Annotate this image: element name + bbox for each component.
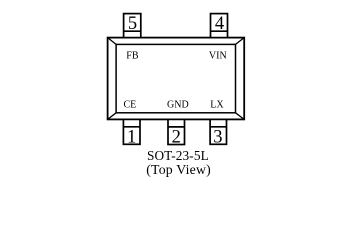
pin 3 number label: [213, 128, 222, 148]
bevel edge top-right: [236, 38, 245, 45]
bevel edge top-left: [108, 38, 117, 45]
bevel edge bottom-right: [236, 113, 245, 120]
pin 1 lead and number box: [123, 119, 140, 144]
svg-text:FB: FB: [126, 50, 139, 61]
svg-text:4: 4: [215, 14, 224, 34]
pin label VIN: [209, 50, 227, 61]
pin 1 number label: [127, 128, 136, 148]
pin 4 lead and number box: [211, 14, 228, 38]
pin 2 number label: [172, 128, 181, 148]
svg-text:CE: CE: [124, 100, 137, 111]
pin label CE: [124, 100, 137, 111]
pin 3 lead and number box: [210, 119, 226, 144]
caption SOT-23-5L: [147, 148, 209, 163]
pin 4 number label: [215, 14, 224, 34]
pin label FB: [126, 50, 139, 61]
svg-text:1: 1: [127, 128, 136, 148]
svg-text:GND: GND: [167, 100, 189, 111]
pin 5 lead and number box: [124, 14, 141, 38]
svg-text:LX: LX: [210, 100, 224, 111]
svg-text:2: 2: [172, 128, 181, 148]
svg-text:5: 5: [128, 14, 137, 34]
pin 5 number label: [128, 14, 137, 34]
pin label GND: [167, 100, 189, 111]
pin 2 lead and number box: [168, 119, 185, 144]
caption (Top View): [146, 162, 211, 178]
bevel edge bottom-left: [108, 113, 117, 120]
svg-text:3: 3: [213, 128, 222, 148]
package body inner outline: [116, 44, 235, 112]
svg-text:VIN: VIN: [209, 50, 227, 61]
package body outer outline: [108, 38, 245, 120]
svg-text:(Top View): (Top View): [146, 162, 211, 178]
pin label LX: [210, 100, 224, 111]
svg-text:SOT-23-5L: SOT-23-5L: [147, 148, 209, 163]
